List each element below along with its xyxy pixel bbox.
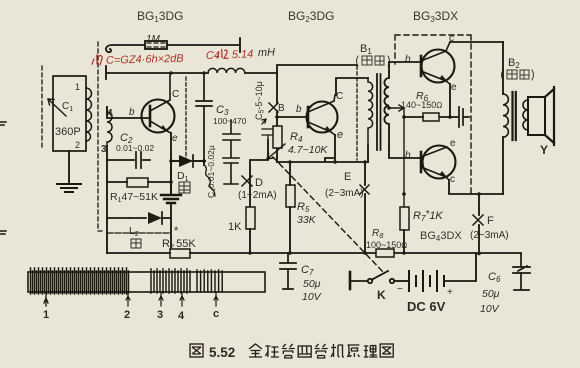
wire base BG2 — [277, 116, 308, 118]
svg-text:C=GZ4·6h×2dB: C=GZ4·6h×2dB — [106, 53, 184, 67]
svg-text:K: K — [377, 288, 386, 302]
wire top feedback — [106, 38, 240, 52]
resistor R 1K emitter BG1 — [228, 207, 255, 253]
dashed box push-pull — [395, 35, 471, 195]
resistor R2 55K — [162, 225, 196, 258]
svg-text:4.7~10K: 4.7~10K — [288, 144, 328, 156]
wire emitter BG1 down — [170, 133, 172, 194]
svg-text:b: b — [405, 150, 411, 161]
label BG1 3DG — [137, 9, 183, 24]
svg-text:2: 2 — [124, 309, 130, 321]
transistor BG4 — [405, 138, 456, 185]
node BG3 emitter junction — [448, 115, 452, 119]
capacitor C2 — [107, 132, 154, 168]
dashed screen line — [356, 66, 358, 160]
svg-text:e: e — [451, 82, 457, 93]
svg-text:C5-5~10μ: C5-5~10μ — [254, 81, 266, 120]
ground under C1 — [57, 184, 81, 192]
label B1 shuru fake — [357, 56, 390, 66]
svg-text:BG43DX: BG43DX — [420, 230, 462, 243]
red annotation C4 value — [206, 47, 276, 62]
wire node to BG2 top — [277, 65, 357, 73]
transistor BG2 — [307, 91, 344, 141]
resistor R7 1K — [400, 207, 462, 253]
node D1 left — [169, 159, 173, 163]
node F top — [477, 192, 481, 196]
svg-text:0.01~0.02: 0.01~0.02 — [116, 143, 154, 153]
node base tap BG2 — [275, 115, 279, 119]
svg-text:*: * — [174, 225, 179, 237]
svg-text:2: 2 — [75, 140, 80, 150]
svg-text:mH: mH — [258, 47, 276, 60]
svg-text:e: e — [337, 129, 343, 141]
node b label BG2 — [296, 104, 302, 115]
label B2 shuchu fake — [502, 70, 534, 80]
resistor R6 140~150 — [401, 90, 442, 121]
wire BG3 collector top — [450, 41, 503, 43]
resistor R1 47~51K — [107, 178, 171, 204]
svg-text:b: b — [405, 54, 411, 65]
svg-text:33K: 33K — [297, 214, 317, 226]
battery DC 6V — [397, 254, 476, 314]
node emitter bottom — [333, 160, 337, 164]
svg-text:140~150Ω: 140~150Ω — [401, 100, 442, 110]
wire L2 row — [107, 232, 171, 234]
transistor BG1 — [142, 73, 180, 144]
caption: 图 5.52 全硅管四管机原理图 (fake glyphs, CJK unavailable) — [190, 344, 393, 360]
capacitor C6 50u 10V — [480, 254, 530, 315]
svg-text:(1~2mA): (1~2mA) — [238, 190, 277, 201]
wire F column — [478, 194, 480, 254]
supply rail — [107, 252, 521, 254]
svg-text:(2~3mA): (2~3mA) — [470, 230, 509, 241]
diode D2 — [107, 212, 171, 238]
B1 secondary winding — [384, 72, 389, 150]
wire BG2 stage left column — [276, 73, 278, 162]
resistor R 1M — [145, 34, 167, 49]
svg-text:5.52: 5.52 — [209, 345, 235, 360]
antenna dashed coupling line left — [41, 66, 43, 150]
wire BG2 collector to B1 — [336, 78, 368, 95]
node rail junctions — [248, 251, 481, 255]
svg-text:BG13DG: BG13DG — [137, 9, 183, 24]
capacitor C7 50u 10V — [280, 253, 322, 303]
wire W2 horizontal — [106, 66, 277, 79]
rod tap 1 — [43, 293, 49, 321]
capacitor C5 symbol — [262, 119, 275, 140]
svg-text:e: e — [450, 138, 456, 149]
node E top — [363, 160, 367, 164]
edge mark left upper — [0, 122, 6, 125]
B2 primary winding — [503, 94, 508, 137]
wire B1 center tap to R7 — [389, 105, 404, 207]
capacitor center tap symbol — [459, 107, 469, 127]
node B1 center tap — [387, 106, 391, 110]
node junction W2 — [169, 71, 173, 75]
node C3 top — [202, 71, 206, 75]
test point F — [470, 215, 509, 241]
potentiometer R4 47~10K — [267, 126, 328, 159]
node C3 foot — [202, 159, 206, 163]
svg-text:3: 3 — [157, 309, 163, 321]
ferrite rod antenna — [28, 272, 265, 292]
transistor BG3 — [405, 33, 457, 93]
svg-text:4: 4 — [178, 310, 185, 322]
test point D — [238, 176, 277, 201]
svg-text:c: c — [450, 174, 455, 185]
svg-text:D: D — [255, 177, 263, 189]
svg-text:Y: Y — [540, 143, 548, 157]
svg-text:BG23DG: BG23DG — [288, 9, 334, 24]
wire B1 secondary bottom to BG4 base — [389, 150, 421, 158]
wire B1 primary bottom — [367, 146, 369, 162]
dashed gang line pot to switch — [273, 157, 384, 273]
ferrite dashed coupling line — [98, 42, 104, 231]
diode D1 — [171, 155, 205, 183]
wire C1 to ground — [68, 151, 70, 183]
node b label BG1 — [129, 107, 135, 118]
B1 core — [377, 74, 381, 150]
rod tap 2 — [124, 293, 130, 321]
transformer B2 output — [508, 57, 520, 70]
wire BG4 collector bottom — [449, 180, 503, 194]
svg-text:+: + — [447, 287, 453, 298]
node center tap line crossing — [402, 192, 406, 196]
svg-text:DC 6V: DC 6V — [407, 299, 446, 314]
svg-text:1: 1 — [43, 309, 49, 321]
inductor L choke 5.14mH — [208, 68, 245, 73]
wire D1 to C3 foot — [171, 161, 205, 165]
label si silicon fake glyph — [131, 239, 141, 248]
speaker Y — [528, 87, 554, 157]
resistor R5 33K — [286, 160, 317, 253]
svg-text:b: b — [296, 104, 302, 115]
label BG3 3DX — [413, 9, 458, 24]
capacitor C5 vertical label — [254, 81, 266, 120]
test point E — [325, 171, 369, 199]
svg-text:c: c — [213, 308, 219, 320]
svg-text:100~150Ω: 100~150Ω — [366, 240, 407, 250]
B1 primary winding — [368, 78, 373, 146]
capacitor C4 — [206, 120, 240, 198]
svg-text:1M: 1M — [146, 34, 161, 45]
wire BG2 stage bottom — [277, 158, 368, 162]
rod winding hatch right — [197, 270, 222, 292]
svg-text:BG33DX: BG33DX — [413, 9, 458, 24]
edge mark left lower — [0, 231, 6, 234]
wire E column — [364, 162, 366, 253]
svg-text:C: C — [172, 89, 179, 100]
wire C5 to 1K column — [250, 140, 268, 207]
svg-text:100~470: 100~470 — [213, 116, 247, 126]
svg-text:1K: 1K — [228, 221, 242, 233]
squiggle correction — [204, 165, 215, 196]
node 4 label — [107, 108, 113, 119]
label ge germanium fake glyph — [179, 182, 190, 193]
svg-text:b: b — [129, 107, 135, 118]
transformer B1 input — [360, 43, 372, 56]
dashed gang link BG1 — [185, 77, 187, 160]
inductor L1 secondary winding — [107, 107, 112, 146]
inductor L1 primary winding — [86, 88, 92, 141]
node R1-emitter junction — [169, 180, 173, 184]
ground BG1 emitter — [161, 195, 181, 203]
B2 secondary winding — [523, 100, 528, 130]
wire base BG1 — [107, 107, 150, 253]
svg-text:(2~3mA): (2~3mA) — [325, 188, 364, 199]
rod winding hatch dense — [31, 268, 129, 294]
svg-text:50μ: 50μ — [303, 278, 321, 290]
red annotation left — [92, 53, 184, 67]
test point B — [269, 103, 285, 114]
svg-text:E: E — [344, 171, 351, 183]
B2 core — [513, 92, 516, 140]
svg-text:50μ: 50μ — [482, 288, 500, 300]
svg-text:360P: 360P — [55, 126, 81, 138]
rod tap c — [213, 293, 219, 320]
rod tap 3 — [157, 293, 163, 321]
svg-text:e: e — [172, 133, 178, 144]
svg-text:F: F — [487, 215, 494, 227]
rod winding hatch mid — [151, 269, 190, 293]
wire emitter node down — [170, 161, 172, 249]
wire B1 secondary top to BG3 base — [389, 62, 421, 72]
wire BG3 emitter to R6 — [439, 84, 458, 117]
variable capacitor C1 360P — [48, 76, 86, 151]
node 3 label — [101, 144, 107, 155]
svg-text:R255K: R255K — [162, 238, 196, 251]
svg-text:10V: 10V — [480, 303, 500, 315]
svg-text:10V: 10V — [302, 291, 322, 303]
rod tap 4 — [178, 293, 185, 322]
svg-text:B: B — [278, 103, 285, 114]
wire B2 left column — [502, 42, 504, 194]
svg-text:R147~51K: R147~51K — [110, 191, 158, 204]
svg-text:C: C — [336, 91, 343, 102]
svg-text:1: 1 — [75, 82, 80, 92]
switch K — [350, 271, 406, 302]
resistor R8 100~150 — [366, 228, 407, 257]
capacitor C3 — [196, 73, 247, 161]
wire BG2 emitter down — [334, 135, 336, 162]
svg-text:5.14: 5.14 — [232, 48, 254, 61]
label BG2 3DG — [288, 9, 334, 24]
svg-text:−: − — [397, 284, 403, 295]
